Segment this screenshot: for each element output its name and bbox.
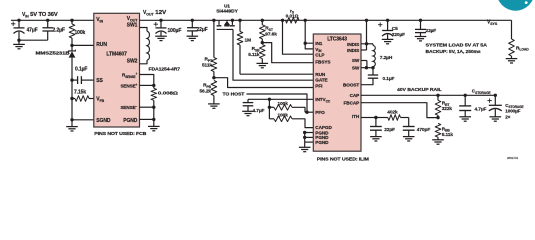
wire chain to VFB xyxy=(71,80,73,98)
svg-text:SW1: SW1 xyxy=(127,23,138,29)
svg-text:SGND: SGND xyxy=(96,118,111,124)
node INTVCC pullup tap xyxy=(268,98,271,101)
svg-text:RUN: RUN xyxy=(96,42,107,48)
ground RLOAD xyxy=(511,56,513,59)
svg-text:3643 F01: 3643 F01 xyxy=(507,156,519,160)
wire IN1 VIN xyxy=(304,19,307,22)
svg-text:RBT: RBT xyxy=(442,101,451,107)
svg-text:PFI: PFI xyxy=(315,84,322,89)
svg-text:22µF: 22µF xyxy=(197,27,208,33)
node SENSE- xyxy=(152,106,155,109)
resistor 100k RUN pullup xyxy=(70,19,73,22)
ground 22uF xyxy=(191,31,193,36)
ground 22pF xyxy=(375,130,377,136)
node SS junction xyxy=(70,78,73,81)
svg-text:47µF: 47µF xyxy=(27,27,38,33)
capacitor 22uF system xyxy=(419,19,422,22)
svg-text:4.7µF: 4.7µF xyxy=(253,108,265,114)
capacitor 0.1uF boost xyxy=(372,68,374,75)
wire TO HOST to PFO xyxy=(247,94,308,112)
node SW inductor junction xyxy=(371,66,374,69)
resistor 7.15k xyxy=(75,96,89,102)
svg-text:5.11k: 5.11k xyxy=(248,52,260,58)
svg-text:0.1µF: 0.1µF xyxy=(383,76,395,82)
ground 100uF xyxy=(160,32,162,37)
ground 470pF xyxy=(408,130,410,136)
ground PGND LTC3643 xyxy=(304,142,306,147)
resistor RPB 56.2k xyxy=(211,81,217,96)
resistor RBT 322k xyxy=(436,94,439,97)
svg-text:0.008Ω: 0.008Ω xyxy=(158,90,178,96)
node VIN input rail xyxy=(11,19,94,21)
wire SENSE+ xyxy=(140,84,154,86)
resistor 0.008ohm sense xyxy=(153,85,155,88)
svg-text:7.15k: 7.15k xyxy=(74,90,86,96)
wire gate to GATE pin xyxy=(233,29,313,80)
resistor 1M RUN pullup xyxy=(238,19,241,22)
svg-text:VOUT 12V: VOUT 12V xyxy=(143,10,167,16)
svg-text:SW2: SW2 xyxy=(127,59,138,65)
wire cap bottoms xyxy=(19,39,48,41)
svg-text:BACKUP: 5V, 1A, 250ms: BACKUP: 5V, 1A, 250ms xyxy=(426,49,482,54)
svg-text:CLP: CLP xyxy=(315,52,324,57)
svg-text:PFO: PFO xyxy=(315,110,325,115)
ground RBB xyxy=(437,137,439,140)
svg-text:PGND: PGND xyxy=(123,118,138,124)
resistor RPT 511k xyxy=(213,20,215,57)
node pullup PFO tap xyxy=(268,106,271,109)
svg-text:Si4449DY: Si4449DY xyxy=(216,8,238,13)
svg-text:0.01Ω: 0.01Ω xyxy=(286,14,299,20)
svg-text:SS: SS xyxy=(96,78,103,84)
svg-text:RLOAD: RLOAD xyxy=(516,45,529,51)
node RUN junction xyxy=(70,44,73,47)
resistor rS 0.01ohm xyxy=(281,19,284,22)
capacitor 4.7uF storage xyxy=(464,94,467,97)
svg-text:1M: 1M xyxy=(245,38,252,44)
svg-text:SW: SW xyxy=(352,58,360,63)
ground SGND xyxy=(71,120,73,127)
svg-text:MMSZ5231B: MMSZ5231B xyxy=(36,51,71,56)
node PFO xyxy=(305,111,308,114)
node FBCAP divider xyxy=(436,116,439,119)
node VFB junction xyxy=(70,97,73,100)
op-amp U2 LTC3643 xyxy=(313,34,361,151)
resistor RLOAD xyxy=(511,20,513,39)
ground RPB xyxy=(213,96,215,104)
svg-text:CSTORAGE: CSTORAGE xyxy=(472,89,492,95)
svg-text:INDIS: INDIS xyxy=(347,48,359,53)
wire PGND bus LTC3643 xyxy=(305,132,314,134)
capacitor 0.1uF soft-start xyxy=(72,79,78,81)
resistor 100k PFO pullup xyxy=(269,106,274,108)
svg-text:C5: C5 xyxy=(392,26,398,32)
capacitor 22uF rail xyxy=(191,19,194,22)
svg-text:CAP: CAP xyxy=(350,93,360,98)
wire SGND xyxy=(72,119,94,121)
svg-text:FDA1254-4R7: FDA1254-4R7 xyxy=(149,67,181,72)
wire 40V backup rail xyxy=(361,94,495,96)
svg-text:RSB: RSB xyxy=(252,46,261,52)
svg-text:RUN: RUN xyxy=(315,72,326,77)
svg-text:SENSE+: SENSE+ xyxy=(120,83,137,88)
wire PFO xyxy=(305,111,313,113)
resistor RST 97.6k xyxy=(261,19,264,22)
resistor 402k comp xyxy=(376,117,388,119)
wire RSENSE+ to sense resistor xyxy=(140,75,154,86)
inductor 7.2uH xyxy=(367,43,374,45)
svg-text:1000µF: 1000µF xyxy=(505,109,520,114)
wire chain to SGND xyxy=(71,99,73,120)
svg-text:100k: 100k xyxy=(75,30,86,36)
svg-text:470pF: 470pF xyxy=(417,127,431,133)
svg-text:5.11k: 5.11k xyxy=(442,132,454,138)
svg-text:0.1µF: 0.1µF xyxy=(75,67,87,73)
svg-text:RPB: RPB xyxy=(203,83,212,89)
node FBSYS divider xyxy=(261,41,264,44)
svg-text:402k: 402k xyxy=(387,110,398,116)
svg-text:LTC3643: LTC3643 xyxy=(327,37,347,43)
svg-text:511k: 511k xyxy=(202,63,212,69)
svg-text:97.6k: 97.6k xyxy=(265,32,277,38)
ground 22uF system xyxy=(420,33,422,37)
wire ITH xyxy=(361,117,376,119)
svg-text:RST: RST xyxy=(265,26,274,32)
svg-text:IN1: IN1 xyxy=(315,41,322,46)
inductor FDA1254-4R7 xyxy=(140,28,148,32)
svg-text:GATE: GATE xyxy=(315,78,327,83)
capacitor 4.7uF INTVCC xyxy=(247,99,249,102)
svg-text:322k: 322k xyxy=(442,106,453,112)
capacitor 2.2uF xyxy=(46,19,49,22)
wire SENSE- xyxy=(140,106,154,108)
ground CSTORAGE xyxy=(494,109,496,117)
svg-text:LTM4607: LTM4607 xyxy=(106,51,127,57)
svg-text:100k: 100k xyxy=(278,113,289,119)
capacitor C5 220uF xyxy=(386,19,389,22)
svg-text:VIN 5V TO 36V: VIN 5V TO 36V xyxy=(22,12,59,18)
node SGND junction xyxy=(70,118,73,121)
resistor RBB 5.11k xyxy=(435,123,441,137)
ground RSB xyxy=(261,59,263,64)
svg-text:100k: 100k xyxy=(278,101,289,107)
transistor U1 Si4449DY PFET xyxy=(212,19,215,22)
wire PGND xyxy=(140,118,154,120)
op-amp U-module LTM4607 xyxy=(94,13,140,127)
svg-text:PGND: PGND xyxy=(315,140,329,145)
capacitor CSTORAGE 1000uF xyxy=(494,94,497,97)
ground C5 xyxy=(387,34,389,39)
resistor RSB 5.11k xyxy=(260,45,266,59)
svg-text:22µF: 22µF xyxy=(426,28,437,34)
wire FBCAP xyxy=(361,103,438,118)
svg-text:SW: SW xyxy=(352,65,360,70)
svg-text:SENSE−: SENSE− xyxy=(120,105,137,110)
wire SW bus xyxy=(361,60,367,62)
zener diode MMSZ5231B xyxy=(71,45,73,50)
svg-text:PINS NOT USED: FCB: PINS NOT USED: FCB xyxy=(94,131,146,136)
capacitor 47uF input xyxy=(17,19,20,22)
svg-text:2×: 2× xyxy=(505,114,510,119)
ground 4.7uF storage xyxy=(464,111,466,117)
svg-text:ITH: ITH xyxy=(352,114,360,119)
capacitor 470pF xyxy=(408,118,410,127)
svg-text:TO HOST: TO HOST xyxy=(223,91,245,97)
svg-text:PINS NOT USED: ILIM: PINS NOT USED: ILIM xyxy=(317,157,370,162)
svg-text:40V BACKUP RAIL: 40V BACKUP RAIL xyxy=(397,87,442,93)
wire CLP xyxy=(283,20,314,54)
wire FBSYS xyxy=(262,43,313,63)
node SENSE+ xyxy=(152,84,155,87)
resistor 100k CAPGD pullup xyxy=(269,118,274,120)
wire pullup bus xyxy=(268,99,270,119)
svg-text:2.2µF: 2.2µF xyxy=(53,27,65,33)
svg-text:22pF: 22pF xyxy=(384,127,395,133)
svg-text:INDIS: INDIS xyxy=(347,42,359,47)
svg-text:4.7µF: 4.7µF xyxy=(475,106,487,112)
wire RUN xyxy=(72,44,94,46)
svg-text:FBSYS: FBSYS xyxy=(315,59,330,64)
svg-text:SYSTEM LOAD 5V AT 5A: SYSTEM LOAD 5V AT 5A xyxy=(426,42,488,47)
ground 4.7uF xyxy=(247,106,249,112)
wire sense chain to PGND xyxy=(153,107,155,119)
wire PFI xyxy=(214,78,313,88)
wire RUN LTC3643 xyxy=(240,73,313,75)
node PGND junction xyxy=(152,118,155,121)
svg-text:7.2µH: 7.2µH xyxy=(380,55,393,61)
wire VOUT 12V rail xyxy=(140,19,512,21)
node PFI divider xyxy=(212,76,215,79)
svg-text:220µF: 220µF xyxy=(392,32,405,38)
wire INTVCC xyxy=(248,98,313,100)
svg-text:FBCAP: FBCAP xyxy=(344,101,360,106)
wire INDIS riser xyxy=(365,19,368,22)
node ITH comp xyxy=(374,116,377,119)
capacitor 100uF output xyxy=(159,19,162,22)
svg-text:RPT: RPT xyxy=(204,57,213,63)
svg-text:56.2k: 56.2k xyxy=(199,89,211,95)
ground input caps xyxy=(18,40,20,44)
svg-text:BOOST: BOOST xyxy=(343,83,359,88)
capacitor 22pF xyxy=(375,118,377,127)
ground PGND xyxy=(153,119,155,126)
svg-text:100µF: 100µF xyxy=(168,28,182,34)
decoration teal circle xyxy=(497,0,535,11)
svg-text:RBB: RBB xyxy=(442,126,451,132)
